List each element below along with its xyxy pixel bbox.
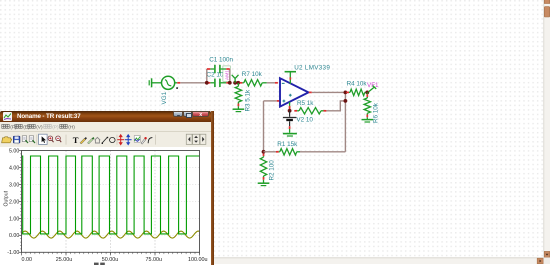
svg-text:100.00u: 100.00u [188, 257, 208, 263]
svg-text:4.00: 4.00 [9, 166, 19, 172]
svg-text:R7 10k: R7 10k [242, 71, 263, 78]
voltage generator VG1 [149, 76, 178, 89]
pin inverting input [275, 82, 278, 84]
wire C branch left vertical [206, 69, 208, 83]
svg-text:2.00: 2.00 [9, 200, 19, 206]
wire R7 to op-amp [267, 82, 275, 84]
waveform result window [0, 111, 214, 265]
svg-text:R3 5.1k: R3 5.1k [244, 89, 251, 112]
ammeter label box AM1 [223, 66, 231, 81]
resistor R4 [346, 89, 367, 95]
svg-text:R4 10k: R4 10k [347, 80, 368, 87]
pin output [309, 91, 312, 93]
ground of R6 [362, 120, 374, 122]
wire bottom left segment [264, 151, 277, 153]
pin of VG1 [177, 82, 180, 84]
svg-text:R5 1k: R5 1k [297, 100, 314, 107]
negative supply pin of U2 [289, 102, 291, 111]
junction V2 node [288, 109, 292, 113]
node A junction [205, 81, 209, 85]
junction bottom left node [262, 150, 266, 154]
scrollbar corner [544, 258, 550, 264]
battery V2 [283, 111, 296, 133]
wire right feedback vertical [344, 92, 346, 151]
resistor R2 [260, 153, 266, 182]
vertical scrollbar thumb [544, 7, 549, 18]
wire C branch right vertical [229, 69, 231, 83]
svg-text:VG1: VG1 [161, 91, 168, 104]
wire bottom to right vertical [300, 151, 345, 153]
resistor R1 [276, 149, 300, 155]
node B junction [228, 81, 232, 85]
ground of R3 [233, 109, 245, 111]
junction feedback node [344, 99, 348, 103]
ground of R2 [258, 183, 270, 185]
resistor R5 [294, 108, 326, 114]
junction at R3 top [236, 81, 240, 85]
junction at arrow [233, 81, 237, 85]
horizontal scrollbar track [0, 258, 544, 264]
svg-text:(V): (V) [36, 125, 43, 131]
junction VF1 node [365, 91, 369, 95]
svg-text:0.00: 0.00 [9, 234, 19, 240]
svg-text:(F): (F) [10, 125, 17, 131]
wire output [312, 91, 346, 93]
svg-text:VF1: VF1 [367, 82, 379, 89]
resistor R6 [364, 92, 370, 119]
resistor R3 [235, 83, 241, 109]
capacitor C2 [207, 79, 230, 87]
horizontal scrollbar right button [537, 258, 543, 264]
svg-text:(E): (E) [23, 125, 30, 131]
svg-text:V2 10: V2 10 [296, 117, 313, 124]
svg-text:C1 100n: C1 100n [209, 57, 233, 64]
vertical scrollbar down button [544, 251, 549, 257]
olive input wave [22, 231, 200, 238]
svg-text:3.00: 3.00 [9, 183, 19, 189]
pin noninverting input [277, 100, 280, 102]
svg-text:(H): (H) [68, 125, 75, 131]
svg-text:0.00: 0.00 [22, 257, 33, 263]
svg-text:(P): (P) [52, 125, 59, 131]
svg-text:5.00: 5.00 [9, 149, 19, 155]
wire left feedback vertical [263, 101, 265, 152]
svg-text:R2 100: R2 100 [268, 160, 275, 181]
svg-text:T: T [73, 135, 79, 145]
svg-text:-1.00: -1.00 [7, 251, 19, 257]
svg-text:50.00u: 50.00u [102, 257, 119, 263]
svg-text:Output: Output [4, 191, 10, 207]
capacitor C1 [207, 65, 230, 73]
svg-text:U2 LMV339: U2 LMV339 [294, 64, 330, 71]
svg-text:R1 15k: R1 15k [277, 141, 298, 148]
vertical scrollbar track [544, 0, 550, 258]
svg-text:75.00u: 75.00u [146, 257, 163, 263]
resistor R7 [240, 80, 267, 86]
svg-text:R6 10k: R6 10k [372, 102, 379, 123]
svg-text:1.00: 1.00 [9, 217, 19, 223]
ground of V2 [283, 134, 297, 136]
wire noninverting input [264, 100, 277, 102]
voltage arrow marker [232, 75, 239, 83]
op-amp U2 [280, 78, 309, 106]
voltage pin VF1 [368, 86, 376, 93]
wire R5 to output node [326, 101, 345, 111]
svg-text:25.00u: 25.00u [56, 257, 73, 263]
green output wave [22, 156, 200, 234]
junction output node [344, 91, 348, 95]
power pin bar of U2 [285, 72, 296, 84]
wire VG1 to node A [180, 82, 207, 84]
vertical scrollbar up button [544, 0, 549, 4]
